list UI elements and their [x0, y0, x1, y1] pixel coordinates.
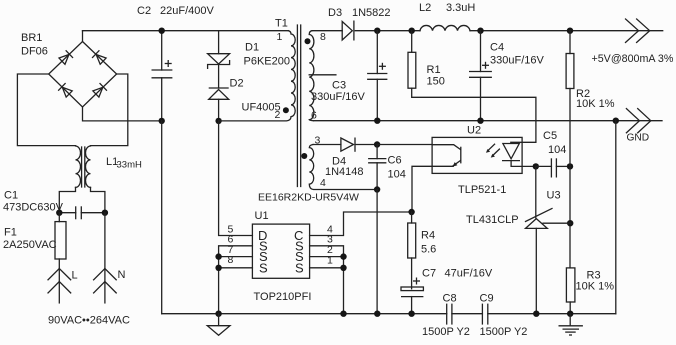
- transformer T1 primary winding pin1 to pin2: [219, 31, 296, 121]
- svg-text:150: 150: [427, 76, 445, 88]
- label C5 104: [543, 130, 566, 156]
- svg-text:R1: R1: [427, 64, 441, 76]
- diode D2 UF4005: [209, 88, 229, 121]
- capacitor C5 104: [536, 158, 570, 177]
- label R4 5.6: [421, 230, 436, 256]
- TVS diode D1 P6KE200: [208, 31, 230, 69]
- wire drain node down to U1 pin5: [219, 121, 253, 236]
- svg-text:TOP210PFI: TOP210PFI: [254, 291, 312, 303]
- bridge rectifier BR1 diamond outline: [49, 42, 117, 108]
- capacitor C9 1500P Y2: [482, 304, 487, 325]
- wire U1 control pin4 to feedback node: [310, 212, 412, 236]
- svg-text:U3: U3: [547, 190, 561, 202]
- wire feedback node down: [569, 166, 571, 268]
- capacitor C2 bulk electrolytic: [152, 31, 173, 121]
- wire right bus GND rail to bottom rail: [615, 121, 617, 314]
- node control pin / R4 junction: [408, 209, 414, 215]
- node LED cathode / C5 / U3 junction: [533, 163, 539, 169]
- wire opto emitter to control node: [412, 166, 432, 212]
- node R2 top junction: [567, 28, 573, 34]
- label L2 3.3uH: [419, 2, 475, 14]
- terminal N input arrow: [94, 213, 117, 303]
- svg-text:1500P Y2: 1500P Y2: [422, 326, 470, 338]
- wire +5V rail D3 to L2: [377, 30, 420, 32]
- label R1 150: [427, 64, 445, 88]
- wire primary ground rail: [162, 313, 447, 315]
- svg-text:C8: C8: [443, 293, 457, 305]
- node aux return on rail: [374, 311, 380, 317]
- wire U1 source pins 3,2,1 bus to ground rail: [310, 246, 344, 314]
- svg-text:473DC630V: 473DC630V: [3, 202, 64, 214]
- output GND chevron: [626, 109, 650, 133]
- wire T1 pin3 to D4: [313, 144, 341, 146]
- svg-text:C6: C6: [388, 155, 402, 167]
- wire aux return to primary ground rail: [376, 190, 378, 314]
- svg-text:104: 104: [388, 169, 406, 181]
- label C4 330uF/16V: [490, 42, 544, 67]
- node C5 right / R2 bottom junction: [567, 163, 573, 169]
- svg-text:C3: C3: [332, 80, 346, 92]
- label C1 473DC630V: [3, 190, 64, 214]
- node TL431 anode on rail: [533, 311, 539, 317]
- svg-text:F1: F1: [4, 227, 17, 239]
- label D4 1N4148: [325, 156, 364, 178]
- inductor L2: [420, 25, 470, 30]
- svg-text:U2: U2: [467, 124, 481, 136]
- node U1 pin8 junction: [215, 265, 221, 271]
- BR1 diode upper-right: [92, 50, 107, 65]
- svg-text:330uF/16V: 330uF/16V: [490, 55, 544, 67]
- node U1 pin2 junction: [340, 253, 346, 259]
- wire bridge left AC corner to L1 left winding: [17, 74, 75, 146]
- node C2 top junction: [159, 28, 165, 34]
- label D2 UF4005: [230, 78, 281, 114]
- label C7 47uF/16V: [422, 268, 493, 280]
- svg-text:D1: D1: [245, 42, 259, 54]
- svg-text:1N5822: 1N5822: [352, 7, 391, 19]
- svg-text:1N4148: 1N4148: [325, 166, 364, 178]
- svg-text:104: 104: [548, 144, 566, 156]
- wire bridge top corner to +DC rail: [82, 31, 84, 42]
- inductor L1 right winding: [86, 146, 91, 187]
- wire L1 left winding bottom to C1 left node: [59, 187, 75, 212]
- diode D3 1N5822: [342, 21, 377, 41]
- label C6 104: [388, 155, 406, 181]
- svg-text:S: S: [259, 260, 268, 275]
- node U1 pin1 junction: [340, 265, 346, 271]
- BR1 diode upper-left: [58, 50, 73, 65]
- terminal L input arrow: [48, 269, 71, 303]
- wire bridge right AC corner to L1 right winding: [91, 74, 128, 146]
- resistor R2 10K: [566, 31, 574, 167]
- wire secondary ground bottom rail: [488, 313, 616, 315]
- svg-text:C2: C2: [137, 5, 151, 17]
- svg-text:N: N: [118, 269, 126, 281]
- svg-text:47uF/16V: 47uF/16V: [445, 268, 493, 280]
- svg-text:4: 4: [320, 177, 326, 189]
- svg-text:330uF/16V: 330uF/16V: [311, 91, 365, 103]
- capacitor C8 1500P Y2: [447, 304, 452, 325]
- resistor R1 150: [408, 31, 536, 143]
- svg-text:6: 6: [311, 110, 317, 122]
- wire U1 source pins 6,7,8 bus to ground rail: [219, 246, 253, 314]
- svg-text:10K 1%: 10K 1%: [576, 98, 615, 110]
- svg-text:S: S: [295, 260, 304, 275]
- BR1 diode lower-right: [92, 83, 107, 98]
- svg-text:33mH: 33mH: [117, 160, 142, 171]
- node C7 bottom on rail: [408, 311, 414, 317]
- node C2 bottom junction: [159, 118, 165, 124]
- label BR1 DF06: [21, 32, 48, 58]
- node C4 bottom on gnd rail: [477, 118, 483, 124]
- svg-text:22uF/400V: 22uF/400V: [160, 5, 214, 17]
- svg-text:GND: GND: [627, 133, 650, 144]
- svg-text:DF06: DF06: [21, 46, 48, 58]
- transformer T1 core: [297, 25, 300, 187]
- U1 internal pin letters D S S S / C S S S: [258, 228, 304, 275]
- svg-text:90VAC••264VAC: 90VAC••264VAC: [48, 315, 130, 327]
- wire rail segment C8 to C9: [452, 313, 483, 315]
- node right bus top on gnd rail: [613, 118, 619, 124]
- wire +DC top rail to transformer pin1: [83, 30, 289, 32]
- resistor R4 5.6: [408, 212, 416, 289]
- svg-text:BR1: BR1: [21, 32, 42, 44]
- U2 light arrows: [486, 144, 500, 157]
- diode D4 1N4148: [341, 138, 377, 152]
- node L2 right / C4 junction: [477, 28, 483, 34]
- inductor L1 common-mode choke left winding: [76, 146, 81, 187]
- svg-text:2: 2: [275, 109, 281, 121]
- label D3 1N5822: [328, 7, 391, 19]
- transformer T1 auxiliary winding pin3 to pin4: [309, 145, 377, 190]
- IC U1 TOP210PFI body: [252, 224, 309, 278]
- svg-text:+5V@800mA 3%: +5V@800mA 3%: [592, 53, 674, 65]
- svg-text:3.3uH: 3.3uH: [446, 2, 475, 14]
- capacitor C1 X-cap: [59, 206, 105, 219]
- fuse F1: [55, 213, 66, 269]
- node C1 left junction: [56, 210, 62, 216]
- capacitor C7 47uF/16V: [401, 278, 423, 314]
- node drain junction D2/T1 pin2: [215, 118, 221, 124]
- svg-text:C1: C1: [4, 190, 18, 202]
- T1 primary polarity dot: [283, 107, 289, 113]
- wire opto collector: [377, 144, 432, 146]
- svg-text:EE16R2KD-UR5V4W: EE16R2KD-UR5V4W: [258, 192, 359, 204]
- label D1 P6KE200: [244, 42, 290, 68]
- node L2 left / R1 junction: [409, 28, 415, 34]
- capacitor C4 electrolytic: [469, 31, 492, 121]
- T1 secondary polarity dot: [305, 38, 311, 44]
- U2 LED: [502, 144, 536, 167]
- T1 auxiliary polarity dot: [301, 153, 307, 159]
- ground secondary (earth): [559, 314, 583, 335]
- label F1 2A250VAC: [3, 227, 57, 252]
- svg-text:P6KE200: P6KE200: [244, 56, 290, 68]
- label L1 33mH: [106, 156, 142, 171]
- svg-text:C9: C9: [480, 293, 494, 305]
- wire secondary ground rail: [314, 120, 663, 122]
- svg-text:8: 8: [320, 31, 326, 43]
- node R3 bottom on rail: [567, 311, 573, 317]
- node S-bus left on rail: [215, 311, 221, 317]
- svg-text:8: 8: [228, 254, 234, 266]
- label R3 10K 1%: [576, 270, 615, 293]
- svg-text:5.6: 5.6: [421, 244, 436, 256]
- node aux return junction: [374, 186, 380, 192]
- T1 secondary center tap stub: [309, 74, 336, 76]
- svg-text:D2: D2: [230, 78, 244, 90]
- wire D1 to D2: [218, 65, 220, 89]
- svg-text:1500P Y2: 1500P Y2: [480, 326, 528, 338]
- wire T1 pin8 to D3: [312, 30, 342, 32]
- svg-text:C7: C7: [422, 268, 436, 280]
- svg-text:L: L: [72, 270, 78, 282]
- node C1 right junction: [102, 210, 108, 216]
- label R2 10K 1%: [576, 88, 615, 110]
- shunt regulator U3 TL431CLP: [526, 166, 571, 313]
- wire bridge bottom corner to C2 minus: [83, 107, 162, 121]
- svg-text:C4: C4: [490, 42, 504, 54]
- capacitor C6 104: [368, 145, 386, 190]
- svg-text:TL431CLP: TL431CLP: [466, 214, 519, 226]
- inductor L1 core: [82, 147, 85, 187]
- label C2 22uF/400V: [137, 5, 214, 17]
- ground primary (triangle): [207, 314, 230, 336]
- BR1 diode lower-left: [58, 83, 73, 98]
- svg-text:2A250VAC: 2A250VAC: [3, 239, 57, 251]
- label C3 330uF/16V: [311, 80, 365, 104]
- wire +5V rail L2 to output: [470, 30, 663, 32]
- capacitor C3 output electrolytic: [367, 31, 387, 121]
- svg-text:C5: C5: [543, 130, 557, 142]
- node C3 bottom on gnd rail: [374, 118, 380, 124]
- svg-text:L2: L2: [419, 2, 431, 14]
- node U1 pin7 junction: [215, 253, 221, 259]
- U2 phototransistor: [432, 145, 461, 167]
- wire L1 right winding bottom to C1 right node: [91, 187, 105, 212]
- node D3 cathode / C3 junction: [374, 28, 380, 34]
- output +5V chevron: [626, 19, 650, 42]
- svg-text:R4: R4: [421, 230, 435, 242]
- svg-text:10K 1%: 10K 1%: [576, 281, 615, 293]
- resistor R3 10K: [566, 268, 575, 314]
- svg-text:TLP521-1: TLP521-1: [458, 184, 506, 196]
- optocoupler U2 TLP521-1 body: [432, 137, 522, 173]
- svg-text:U1: U1: [255, 210, 269, 222]
- node D4 cathode / C6 / opto collector junction: [374, 141, 380, 147]
- svg-text:D3: D3: [328, 7, 342, 19]
- wire C2 bottom to primary ground rail: [161, 121, 163, 314]
- node TL431 ref junction: [567, 220, 573, 226]
- transformer T1 secondary winding pin8 to pin6: [309, 31, 314, 121]
- node S-bus right on rail: [340, 311, 346, 317]
- svg-text:1: 1: [277, 31, 283, 43]
- svg-text:T1: T1: [275, 18, 288, 30]
